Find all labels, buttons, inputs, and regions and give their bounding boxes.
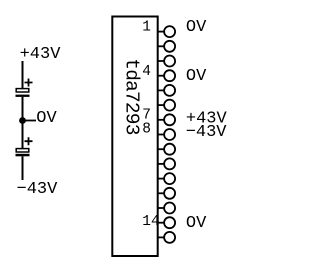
svg-text:−43V: −43V bbox=[17, 180, 59, 199]
svg-text:14: 14 bbox=[142, 214, 159, 230]
svg-text:OV: OV bbox=[186, 18, 207, 37]
svg-text:8: 8 bbox=[142, 122, 151, 138]
svg-text:tda7293: tda7293 bbox=[120, 58, 142, 134]
svg-text:OV: OV bbox=[186, 67, 207, 86]
svg-text:OV: OV bbox=[36, 109, 57, 128]
svg-text:−43V: −43V bbox=[186, 123, 228, 142]
svg-text:4: 4 bbox=[142, 64, 151, 80]
svg-text:+43V: +43V bbox=[20, 45, 62, 64]
svg-text:OV: OV bbox=[186, 214, 207, 233]
svg-text:1: 1 bbox=[142, 20, 151, 36]
